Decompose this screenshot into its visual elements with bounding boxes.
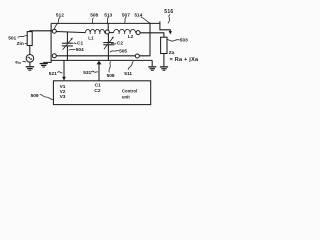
svg-text:C2: C2 xyxy=(94,88,100,94)
wire: rail from node 513 to L2 xyxy=(109,32,114,34)
leader for lower 508 xyxy=(109,61,110,72)
leader for 509 xyxy=(40,95,54,100)
svg-text:V3: V3 xyxy=(60,94,66,100)
current arrow 516 (I) xyxy=(160,21,172,34)
leader for 513 xyxy=(107,17,109,23)
svg-text:= Ra + jXa: = Ra + jXa xyxy=(170,57,199,63)
svg-text:504: 504 xyxy=(76,47,84,53)
svg-text:501: 501 xyxy=(8,35,16,41)
svg-text:C1: C1 xyxy=(77,41,83,47)
leader for 512 xyxy=(54,17,60,29)
svg-text:C2: C2 xyxy=(117,41,123,47)
wire: vertical from node 513 up to top wire xyxy=(107,23,109,30)
antenna impedance Za (503) xyxy=(161,37,167,53)
control unit 509 (box) xyxy=(53,81,150,105)
svg-text:in: in xyxy=(18,61,21,65)
leader for 503 xyxy=(167,39,179,41)
leader for 516 xyxy=(168,14,170,23)
wire: AC source to ground xyxy=(29,62,31,66)
control line 521 (down arrow into control unit) xyxy=(62,61,66,81)
leader for 507 xyxy=(125,17,127,23)
svg-text:503: 503 xyxy=(180,38,188,44)
ground (right end of lower line) xyxy=(148,66,156,71)
svg-text:531: 531 xyxy=(83,70,91,76)
svg-text:509: 509 xyxy=(31,93,39,99)
leader for 505 xyxy=(110,50,119,52)
leader for e_in xyxy=(23,60,27,63)
svg-text:Control: Control xyxy=(122,89,137,94)
svg-text:508: 508 xyxy=(90,13,98,19)
leader for C1 label xyxy=(74,42,77,45)
leader for 501 xyxy=(18,36,27,38)
resistor 501 (source impedance Zin) xyxy=(27,32,32,46)
variable capacitor C1 (504) xyxy=(62,32,73,61)
control line 531 (up arrow from control unit) xyxy=(97,61,102,81)
inductor L2 xyxy=(114,29,136,32)
leader for 531 xyxy=(91,71,98,72)
svg-text:505: 505 xyxy=(119,49,127,55)
svg-text:unit: unit xyxy=(122,94,130,99)
svg-text:516: 516 xyxy=(164,9,173,15)
leader for C2 label xyxy=(111,42,116,45)
leader for 504 xyxy=(69,49,76,50)
node 514 xyxy=(136,31,140,35)
wire: rail from L1 to node 513 xyxy=(104,32,107,34)
label Control unit xyxy=(122,89,137,100)
node (bottom-left terminal) xyxy=(52,54,56,58)
wire: right vertical from top wire down to bottom node xyxy=(139,23,150,55)
wire: lower ground line (net 506) xyxy=(51,59,152,61)
AC source e_in xyxy=(26,55,34,63)
variable capacitor C2 (505) xyxy=(103,34,114,61)
inductor L1 xyxy=(85,29,104,32)
wire: lower line to right ground stem xyxy=(151,60,153,66)
label e_in xyxy=(15,60,21,65)
wire: middle rail from node 512 to L1 xyxy=(56,32,85,33)
leader for 508 xyxy=(92,18,93,23)
svg-text:L2: L2 xyxy=(128,34,134,39)
svg-text:L1: L1 xyxy=(88,36,94,41)
ground (left, under left vertical) xyxy=(40,63,48,68)
wire: stub from resistor top to input node 512 xyxy=(30,31,53,32)
svg-text:Zin: Zin xyxy=(17,41,24,47)
node (bottom-right junction) xyxy=(135,54,139,58)
wire: left vertical from top wire down to ground elbow xyxy=(43,23,51,62)
wire: Za bottom to ground xyxy=(163,54,165,67)
node 513 xyxy=(105,30,109,34)
arrow for Zin xyxy=(25,42,27,44)
leader for 521 xyxy=(57,72,62,73)
wire: source resistor bottom to AC source xyxy=(29,46,31,55)
svg-text:508: 508 xyxy=(107,73,115,79)
leader for 514 xyxy=(141,17,150,23)
wire: bottom rail xyxy=(56,55,135,57)
svg-text:511: 511 xyxy=(124,71,132,77)
wire: top bypass wire (net 508) xyxy=(51,22,160,24)
svg-text:C1: C1 xyxy=(95,83,101,89)
node 512 (input terminal circle) xyxy=(52,29,56,33)
leader for 511 xyxy=(128,61,133,70)
ground (under Za) xyxy=(160,66,168,71)
wire: rail from node 514 to Za branch xyxy=(140,33,164,37)
svg-text:Za: Za xyxy=(169,50,175,56)
svg-text:521: 521 xyxy=(49,71,57,77)
ground (under AC source) xyxy=(26,66,34,71)
